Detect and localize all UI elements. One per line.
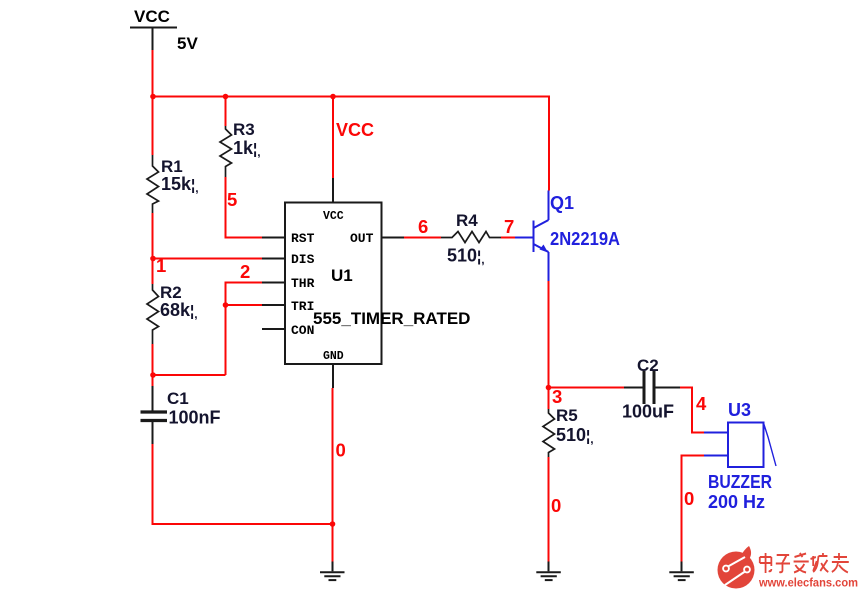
node junction at R1 top — [150, 94, 156, 100]
resistor R4 — [441, 211, 501, 267]
svg-text:15k¦,: 15k¦, — [161, 174, 199, 195]
svg-text:TRI: TRI — [291, 299, 314, 314]
wire OUT to R4 — [404, 237, 441, 239]
wire top bus — [153, 97, 550, 191]
svg-text:THR: THR — [291, 276, 315, 291]
pin GND stub — [332, 364, 334, 388]
node junction C1 top — [150, 372, 156, 378]
node junction at U1 VCC pin — [330, 94, 336, 100]
pin DIS stub — [262, 258, 285, 260]
svg-text:3: 3 — [552, 386, 562, 407]
svg-text:555_TIMER_RATED: 555_TIMER_RATED — [313, 309, 470, 328]
watermark logo — [718, 546, 755, 589]
svg-text:200 Hz: 200 Hz — [708, 492, 765, 512]
svg-text:RST: RST — [291, 231, 315, 246]
wire Q1 emitter to node 3 — [548, 281, 550, 409]
svg-text:DIS: DIS — [291, 252, 315, 267]
wire C1 to bottom rail — [153, 444, 333, 524]
wire buzzer pin 2 to ground — [682, 456, 705, 562]
svg-text:VCC: VCC — [323, 210, 344, 223]
svg-text:C1: C1 — [167, 389, 189, 408]
buzzer U3 — [704, 423, 776, 468]
wire node 3 to C2 — [549, 387, 625, 389]
svg-text:BUZZER: BUZZER — [708, 472, 772, 492]
wire R2 to node at C1 — [152, 344, 154, 386]
svg-text:510¦,: 510¦, — [447, 246, 485, 267]
resistor R1 — [147, 155, 199, 213]
svg-text:100uF: 100uF — [622, 402, 674, 422]
wire node1 to DIS — [153, 258, 263, 260]
node junction at R3 top — [223, 94, 229, 100]
ground symbol under buzzer — [669, 562, 694, 581]
wire GND pin down to ground — [332, 388, 334, 562]
svg-text:6: 6 — [418, 216, 428, 237]
wire node to TRI/THR branch corner — [153, 374, 226, 376]
wire R5 to ground — [548, 457, 550, 562]
svg-text:0: 0 — [336, 440, 346, 461]
node junction TRI — [223, 302, 229, 308]
svg-text:0: 0 — [551, 495, 561, 516]
svg-text:100nF: 100nF — [169, 408, 221, 428]
ground symbol under R5 — [536, 562, 561, 581]
pin OUT stub — [382, 237, 405, 239]
node junction bottom rail — [330, 521, 336, 527]
wire R1 to node 1 — [152, 213, 154, 284]
svg-text:68k¦,: 68k¦, — [160, 300, 198, 321]
pin CON stub — [262, 328, 285, 330]
svg-text:1: 1 — [156, 255, 166, 276]
ground symbol under U1 — [320, 562, 345, 581]
wire bus to U1 VCC — [332, 97, 334, 179]
wire bus to R1 — [152, 97, 154, 156]
pin RST stub — [262, 237, 285, 239]
svg-text:4: 4 — [696, 393, 707, 414]
svg-text:R5: R5 — [556, 406, 578, 425]
svg-text:1k¦,: 1k¦, — [233, 138, 261, 159]
svg-text:Q1: Q1 — [550, 193, 574, 213]
svg-text:2: 2 — [240, 261, 250, 282]
wire VCC vertical to bus — [152, 50, 154, 97]
capacitor C1 — [141, 386, 221, 444]
node 3 junction — [546, 385, 552, 391]
transistor Q1 — [515, 191, 549, 282]
svg-text:U3: U3 — [728, 400, 751, 420]
svg-text:CON: CON — [291, 323, 314, 338]
svg-text:5: 5 — [227, 189, 237, 210]
svg-text:R3: R3 — [233, 120, 255, 139]
node 1 junction — [150, 256, 156, 262]
svg-text:0: 0 — [684, 488, 694, 509]
capacitor C2 — [622, 356, 680, 422]
svg-text:VCC: VCC — [336, 120, 374, 140]
pin TRI stub — [262, 304, 285, 306]
watermark chinese text (vector strokes) — [760, 553, 849, 573]
svg-text:510¦,: 510¦, — [556, 425, 594, 446]
svg-text:C2: C2 — [637, 356, 659, 375]
svg-text:OUT: OUT — [350, 231, 374, 246]
resistor R3 — [220, 97, 261, 178]
wire C2 to buzzer pin 1 — [680, 388, 704, 433]
resistor R2 — [147, 283, 198, 344]
resistor R5 — [543, 406, 594, 457]
wire TRI branch — [226, 304, 263, 306]
wire THR branch — [226, 283, 263, 376]
wire R3 to RST — [226, 177, 263, 238]
svg-text:2N2219A: 2N2219A — [550, 229, 620, 249]
svg-text:U1: U1 — [331, 266, 353, 285]
pin THR stub — [262, 282, 285, 284]
VCC power symbol — [130, 7, 198, 53]
svg-text:5V: 5V — [177, 34, 198, 53]
pin VCC stub U1 — [332, 178, 334, 203]
svg-text:GND: GND — [323, 350, 344, 363]
svg-text:R4: R4 — [456, 211, 478, 230]
svg-text:7: 7 — [504, 216, 514, 237]
Q1 emitter arrowhead — [540, 245, 549, 253]
wire R4 to Q1 base — [501, 237, 515, 239]
svg-text:VCC: VCC — [134, 7, 170, 26]
IC U1 555_TIMER_RATED box — [285, 203, 470, 365]
svg-text:www.elecfans.com: www.elecfans.com — [758, 576, 858, 590]
